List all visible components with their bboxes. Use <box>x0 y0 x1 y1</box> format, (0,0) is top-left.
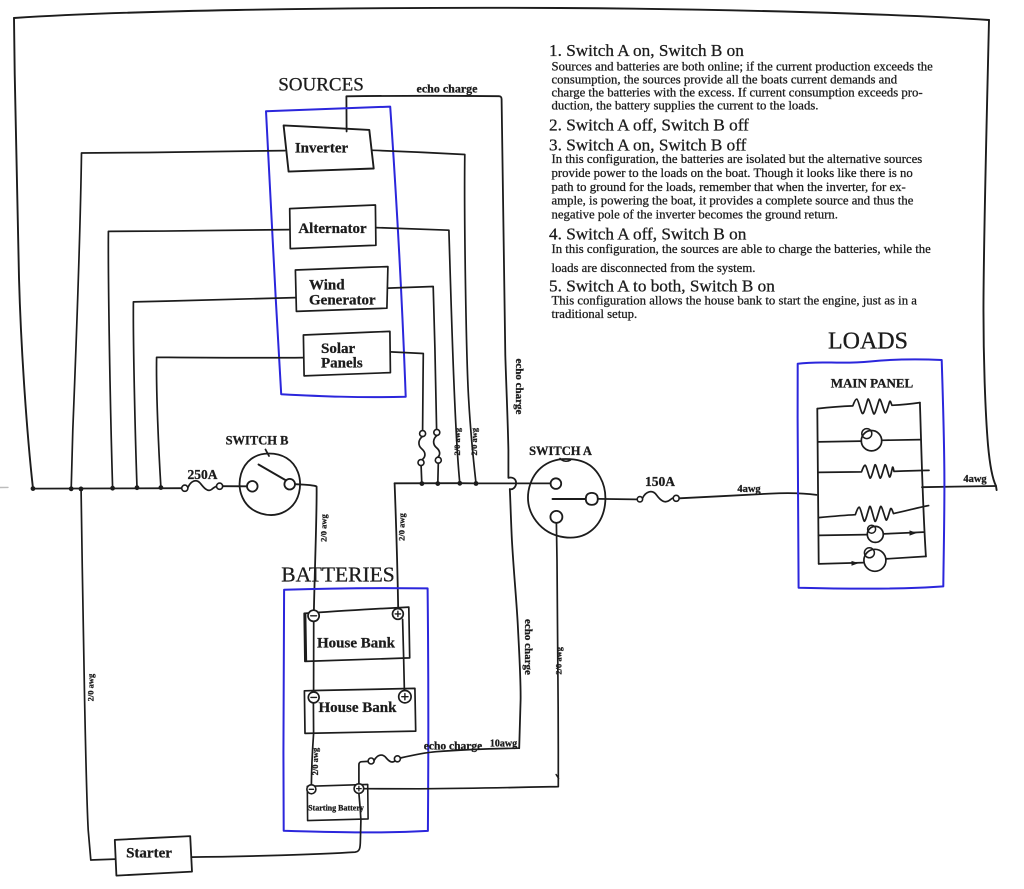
svg-text:1. Switch A on, Switch B on: 1. Switch A on, Switch B on <box>549 41 744 60</box>
svg-text:echo charge: echo charge <box>513 359 525 415</box>
label SOURCES title <box>278 75 364 96</box>
wire alternator negative (left loop) <box>108 230 289 488</box>
load resistor R3 rung <box>818 506 928 522</box>
label BATTERIES title <box>281 563 394 587</box>
svg-text:2/0 awg: 2/0 awg <box>554 646 564 674</box>
source box alternator <box>290 205 376 249</box>
wire wind generator negative (left loop) <box>133 298 295 488</box>
fuse F5 echo charge with wires <box>359 748 519 784</box>
wire bank1 to bank2 positive <box>403 619 405 691</box>
load resistor R1 rung <box>817 399 920 414</box>
wire 4awg from right border to main panel right rail <box>922 486 996 487</box>
svg-text:4awg: 4awg <box>737 484 761 495</box>
svg-text:path to ground for the loads,: path to ground for the loads, remember t… <box>552 180 906 194</box>
label Alternator <box>298 221 367 237</box>
wire switch A to fuse 150A <box>598 498 637 501</box>
wire 4awg fuse 150A to main panel <box>679 493 816 498</box>
batteries blue outline box <box>283 588 428 832</box>
switch B terminal 2 <box>284 479 295 490</box>
battery terminal negative (starting) <box>307 785 316 794</box>
svg-text:duction, the battery supplies: duction, the battery supplies the curren… <box>552 99 819 113</box>
svg-text:4awg: 4awg <box>963 474 987 485</box>
wire left negative bus <box>33 487 184 489</box>
battery house bank 2 box <box>304 688 415 733</box>
wire alternator positive (right) 2/0 awg <box>376 228 460 484</box>
svg-text:BATTERIES: BATTERIES <box>281 563 394 587</box>
label SWITCH B <box>226 434 289 448</box>
load lamp L3 rung with arrow <box>819 548 926 572</box>
junction windgen-right-bus <box>435 481 440 486</box>
source box inverter <box>284 125 374 171</box>
wire inverter negative (left loop) <box>71 151 285 489</box>
svg-text:SWITCH A: SWITCH A <box>529 444 592 458</box>
load resistor R2 rung <box>818 465 929 478</box>
label echo charge (battery fuse) <box>424 740 482 752</box>
svg-text:House Bank: House Bank <box>319 700 398 716</box>
switch B lever <box>259 465 291 484</box>
label LOADS title <box>828 329 908 355</box>
battery terminal positive (bank 2) <box>399 691 411 703</box>
junction inverter-right-bus <box>474 481 479 486</box>
wire switch A to starting battery positive (2/0 awg) <box>364 523 559 789</box>
svg-text:10awg: 10awg <box>490 738 517 749</box>
junction solar-right-bus <box>420 481 425 486</box>
svg-text:In this configuration, the sou: In this configuration, the sources are a… <box>552 242 932 256</box>
label House Bank (bank 2) <box>319 700 398 716</box>
svg-text:Wind: Wind <box>309 277 345 293</box>
wire outer ground loop, left edge <box>14 18 33 489</box>
svg-text:Sources and batteries are both: Sources and batteries are both online; i… <box>552 60 934 74</box>
svg-text:In this configuration, the bat: In this configuration, the batteries are… <box>552 152 923 166</box>
battery terminal negative (bank 2) <box>308 692 319 703</box>
svg-text:2. Switch A off, Switch B off: 2. Switch A off, Switch B off <box>549 116 749 135</box>
svg-text:Starting Battery: Starting Battery <box>308 804 364 813</box>
label SWITCH A <box>529 444 592 458</box>
wire fuse 250A to switch B <box>223 485 247 487</box>
fuse F2 150A <box>637 492 679 502</box>
wire right bus to switch A with hop over echo charge <box>395 482 551 484</box>
svg-text:ample, is powering the boat, i: ample, is powering the boat, it provides… <box>552 194 914 208</box>
label echo charge (rotated, switch A) <box>522 619 534 675</box>
switch A terminal 1 <box>551 478 562 489</box>
svg-text:LOADS: LOADS <box>828 329 908 355</box>
svg-text:SOURCES: SOURCES <box>278 75 364 96</box>
junction border-bus <box>31 486 36 491</box>
label 250A <box>188 467 218 482</box>
main panel right rail <box>920 403 926 557</box>
wire outer ground loop, top edge <box>14 8 989 20</box>
battery terminal positive (bank 1) <box>393 609 404 620</box>
svg-text:2/0 awg: 2/0 awg <box>469 427 479 455</box>
svg-text:4. Switch A off, Switch B on: 4. Switch A off, Switch B on <box>549 225 747 244</box>
junction alternator-right-bus <box>457 481 462 486</box>
label Starter <box>126 846 172 862</box>
svg-text:2/0 awg: 2/0 awg <box>319 513 329 541</box>
label 2/0 awg (inverter) <box>469 427 479 455</box>
load lamp L2 rung with arrow <box>819 525 924 542</box>
svg-text:2/0 awg: 2/0 awg <box>452 427 462 455</box>
svg-text:consumption, the sources provi: consumption, the sources provide all the… <box>552 73 898 87</box>
label 2/0 awg (switch B wire) <box>319 513 329 541</box>
wire inverter positive (right) 2/0 awg <box>373 150 476 483</box>
svg-text:echo charge: echo charge <box>424 740 482 752</box>
battery house bank 1 box <box>304 607 410 661</box>
svg-text:250A: 250A <box>188 467 218 482</box>
switch B body <box>240 450 300 516</box>
label 4awg (left) <box>737 484 761 495</box>
svg-text:150A: 150A <box>645 474 675 489</box>
wire switch B to house bank negative (2/0 awg) <box>295 484 316 610</box>
svg-text:Panels: Panels <box>321 355 363 371</box>
svg-text:charge the batteries with the: charge the batteries with the excess. If… <box>552 86 923 100</box>
wire bank1 to bank2 negative <box>313 621 315 691</box>
switch A body <box>528 459 605 538</box>
svg-text:loads are disconnected from th: loads are disconnected from the system. <box>552 261 756 275</box>
label 4awg (right) <box>963 474 987 485</box>
label Wind Generator <box>309 277 376 308</box>
svg-text:provide power to the loads on: provide power to the loads on the boat. … <box>552 166 913 180</box>
wire bank2 to starting battery (2/0 awg) <box>311 703 313 784</box>
battery terminal negative (bank 1) <box>308 610 319 621</box>
label 2/0 awg (switch A bottom) <box>554 646 564 674</box>
svg-text:Inverter: Inverter <box>295 141 349 157</box>
wire outer ground loop, right edge <box>983 20 996 490</box>
label 2/0 awg (alternator) <box>452 427 462 455</box>
label echo charge (top) <box>417 82 479 96</box>
svg-text:echo charge: echo charge <box>522 619 534 675</box>
switch A terminal common <box>586 493 598 505</box>
wire starting battery positive to starter <box>191 793 361 857</box>
label 10awg <box>490 738 517 749</box>
svg-text:Starter: Starter <box>126 846 172 862</box>
label 2/0 awg (starter wire) <box>86 673 96 701</box>
svg-text:Generator: Generator <box>309 292 376 308</box>
label Starting Battery <box>308 804 364 813</box>
label Inverter <box>295 141 349 157</box>
svg-text:2/0 awg: 2/0 awg <box>86 673 96 701</box>
svg-text:echo charge: echo charge <box>417 82 479 96</box>
svg-text:Alternator: Alternator <box>298 221 367 237</box>
svg-text:2/0 awg: 2/0 awg <box>397 512 407 540</box>
battery terminal positive (starting) <box>354 784 364 794</box>
notes text block <box>549 41 933 321</box>
junction solar-bus <box>159 485 164 490</box>
svg-text:traditional setup.: traditional setup. <box>552 307 638 321</box>
sources blue outline box <box>266 107 406 398</box>
label 2/0 awg (bank2-start wire) <box>310 747 320 775</box>
label 150A <box>645 474 675 489</box>
svg-text:House Bank: House Bank <box>317 636 396 652</box>
source box solar panels <box>303 331 390 376</box>
svg-text:MAIN PANEL: MAIN PANEL <box>831 376 914 391</box>
wire wind generator positive (right) with fuse F3 <box>388 287 441 484</box>
source box wind generator <box>295 267 388 312</box>
stray gray mark at left edge <box>0 486 8 488</box>
wire solar panels negative (left loop) <box>157 357 304 487</box>
fuse F1 250A <box>182 481 223 492</box>
wire echo charge from inverter top to battery fuse (long) <box>346 96 520 748</box>
label echo charge (rotated, sources) <box>513 359 525 415</box>
loads blue outline box <box>798 359 945 588</box>
battery starting battery box <box>307 784 368 820</box>
label House Bank (bank 1) <box>317 636 396 652</box>
main panel left rail <box>817 409 818 564</box>
junction inverter-bus <box>69 486 74 491</box>
junction starter-bus <box>79 487 84 492</box>
wire starter to left bus (2/0 awg) <box>81 491 115 860</box>
load lamp L1 rung <box>818 429 920 451</box>
switch A lever <box>553 498 586 500</box>
svg-text:negative pole of the inverter: negative pole of the inverter becomes th… <box>552 208 838 222</box>
label Solar Panels <box>321 341 363 372</box>
switch A terminal 2 <box>550 511 562 523</box>
svg-text:This configuration allows the: This configuration allows the house bank… <box>552 293 918 307</box>
label MAIN PANEL <box>831 376 914 391</box>
junction windgen-bus <box>135 485 140 490</box>
svg-text:SWITCH B: SWITCH B <box>226 434 289 448</box>
svg-text:2/0 awg: 2/0 awg <box>310 747 320 775</box>
wire solar panels positive (right) with fuse F4 <box>390 352 425 484</box>
label 2/0 awg (house bank positive wire) <box>397 512 407 540</box>
wire right bus corner down to house bank positive (2/0 awg) <box>395 483 399 609</box>
junction alternator-bus <box>110 486 115 491</box>
switch B terminal 1 <box>247 481 258 492</box>
starter box <box>115 836 192 876</box>
